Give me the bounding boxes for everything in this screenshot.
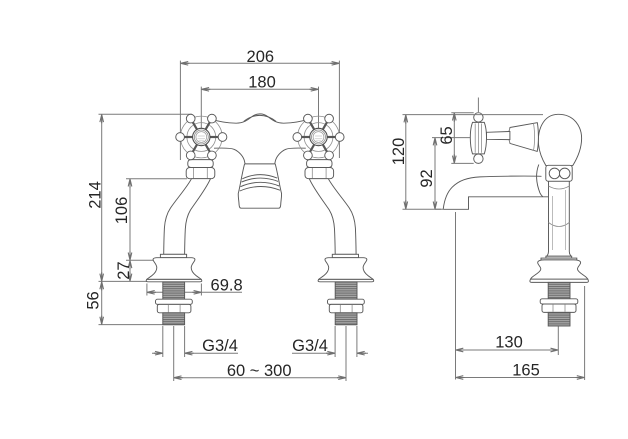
side column: [547, 181, 571, 256]
dimension 56 line: [101, 281, 103, 324]
body top profile: [209, 114, 311, 123]
left backnut washer: [156, 299, 193, 304]
left leg foot group: [146, 254, 202, 281]
dimension G3/4 right line: [292, 326, 368, 357]
svg-text:120: 120: [390, 138, 408, 166]
dimension 60~300 line: [174, 326, 346, 381]
side nut facet circles: [549, 168, 560, 179]
handle hub barrel: [470, 122, 486, 153]
handle shaft: [487, 132, 510, 140]
right leg foot: [318, 254, 374, 281]
left thread upper: [163, 282, 185, 299]
left base rim plate: [146, 279, 202, 281]
left backnut hex: [157, 304, 191, 312]
left leg flange disc: [160, 254, 186, 257]
svg-text:60 ~ 300: 60 ~ 300: [227, 362, 292, 380]
side backnut hex: [542, 304, 576, 312]
dimension 165 line: [456, 286, 585, 380]
dimension 92 line: [432, 138, 470, 210]
svg-text:180: 180: [248, 74, 276, 92]
dimension 120 line: [403, 115, 544, 210]
side base rim plate: [530, 279, 589, 282]
spout bell rings: [240, 175, 280, 191]
handle bottom ball: [474, 154, 483, 163]
side bell base: [531, 260, 588, 279]
handle right cold label: [315, 136, 323, 140]
dimension 106 line: [126, 179, 187, 261]
dimension 180 line: [201, 87, 318, 131]
svg-text:65: 65: [438, 126, 456, 144]
svg-text:106: 106: [113, 197, 131, 225]
handle right: [293, 114, 344, 159]
side collar: [546, 256, 572, 258]
right backnut hex: [329, 304, 363, 312]
spout shoulder line: [245, 163, 276, 165]
left valve hex nut: [186, 168, 215, 179]
svg-text:27: 27: [115, 261, 133, 279]
svg-text:56: 56: [84, 291, 102, 309]
spout outline: [443, 176, 548, 209]
dimension 130 line: [456, 212, 559, 380]
body bottom edge left: [214, 148, 245, 164]
right thread upper: [335, 282, 357, 299]
side thread tail: [548, 312, 570, 326]
left thread tail: [163, 313, 185, 325]
body top inner line: [244, 115, 276, 121]
dimension 214 line: [99, 114, 193, 324]
spout bell sides: [238, 164, 281, 208]
right backnut washer: [328, 299, 365, 304]
spout body seam: [537, 165, 543, 197]
side hex nut: [546, 165, 572, 181]
svg-text:214: 214: [86, 181, 104, 209]
left bell base: [147, 258, 201, 280]
svg-text:G3/4: G3/4: [202, 337, 238, 355]
svg-text:G3/4: G3/4: [292, 337, 328, 355]
handle left: [176, 114, 227, 159]
dimension 27 line: [129, 260, 131, 281]
dimension 69.8 line: [147, 284, 242, 296]
svg-text:165: 165: [512, 362, 540, 380]
right valve collar: [307, 160, 332, 168]
spindle cone: [509, 123, 539, 152]
left valve collar: [188, 160, 213, 168]
handle centerline: [477, 98, 479, 113]
side backnut washer: [540, 299, 578, 304]
handle top ball: [474, 113, 483, 122]
side thread upper: [548, 282, 570, 298]
body bottom edge right: [275, 148, 306, 164]
dome body: [538, 114, 581, 165]
dimension 65 line: [451, 113, 473, 164]
svg-text:69.8: 69.8: [211, 276, 243, 294]
right valve hex nut: [305, 168, 334, 179]
dimension 206 line: [180, 61, 339, 160]
handle left hot label: [198, 136, 206, 140]
svg-text:130: 130: [495, 334, 523, 352]
left leg tube: [164, 179, 211, 255]
dimension G3/4 left line: [152, 326, 238, 357]
svg-text:206: 206: [247, 48, 275, 66]
right leg tube: [309, 179, 356, 255]
svg-text:92: 92: [418, 169, 436, 187]
right thread tail: [335, 313, 357, 325]
